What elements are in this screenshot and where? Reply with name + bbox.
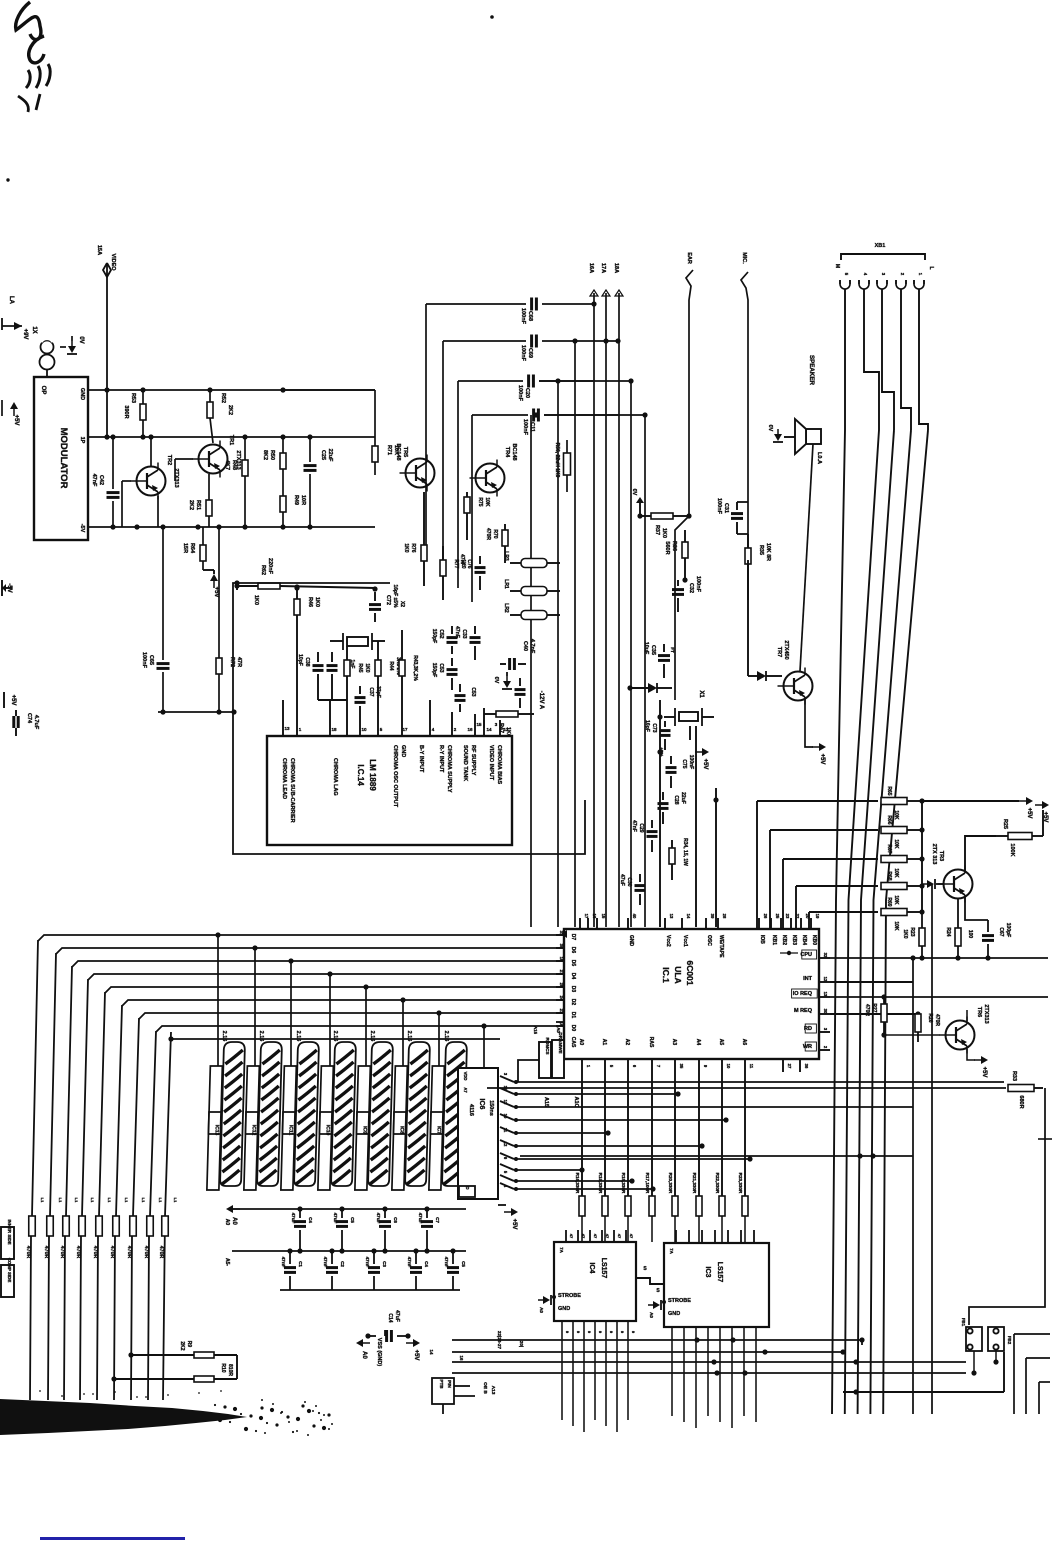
svg-text:VSS (GND): VSS (GND) [376,1338,382,1367]
wire TR1 base link [175,458,193,460]
svg-text:R76: R76 [410,543,416,552]
svg-text:R43,3K,2%: R43,3K,2% [412,655,418,681]
svg-text:L: L [928,266,934,269]
wire MIC line [741,272,748,560]
wire TR6 collector [966,1010,968,1021]
svg-text:+5V: +5V [1042,812,1048,823]
svg-text:12: 12 [503,727,509,732]
svg-text:CHROMA OSC OUTPUT: CHROMA OSC OUTPUT [392,745,398,808]
wire +5V rail right [921,801,923,912]
svg-text:560R: 560R [664,541,670,554]
svg-text:13: 13 [284,726,290,731]
svg-text:IC9: IC9 [361,1126,367,1134]
svg-text:KB2: KB2 [781,935,787,945]
svg-text:L1: L1 [173,1198,178,1203]
svg-text:4.7uF: 4.7uF [33,715,39,730]
svg-text:47nF: 47nF [444,1257,449,1268]
svg-text:C5: C5 [461,1261,466,1267]
svg-text:IC12: IC12 [250,1125,256,1136]
junction dots modulator rails [104,387,109,392]
power +5V right of ROM [504,1208,518,1216]
svg-text:IC4: IC4 [588,1263,595,1274]
svg-text:IC13: IC13 [213,1125,219,1136]
svg-text:28: 28 [722,914,727,919]
svg-text:1K0: 1K0 [314,597,320,607]
LS157 bottom pin wires [561,1321,563,1420]
svg-text:ULA: ULA [673,966,683,983]
svg-text:36: 36 [804,1064,809,1069]
svg-text:IC8: IC8 [398,1126,404,1134]
svg-text:220nF: 220nF [267,558,273,575]
svg-text:4.7nF: 4.7nF [529,639,535,654]
svg-text:OSC: OSC [706,935,712,946]
svg-text:15: 15 [601,914,606,919]
labels side [1,1227,14,1259]
ground 0V TR3 [922,879,935,889]
shield enclosure box [233,583,585,854]
capacitor C37 33pF [355,696,366,699]
capacitor C41 [515,688,526,691]
transistor TR7 2TX450 [784,672,813,701]
svg-text:47uF: 47uF [619,874,625,886]
svg-text:STROBE: STROBE [558,1293,581,1299]
svg-text:M REQ: M REQ [794,1008,813,1014]
svg-text:PTB: PTB [439,1379,444,1389]
capacitor C65 100nF [162,527,164,660]
IC4 74LS157 box [554,1242,636,1321]
capacitor C73 16pF [660,729,671,732]
svg-text:12: 12 [503,1142,508,1147]
svg-text:0V: 0V [493,677,499,684]
svg-text:2.16: 2.16 [295,1031,301,1042]
svg-text:M: M [834,264,840,268]
svg-text:2TX313: 2TX313 [983,1004,989,1023]
wire modulator 1P rail [88,436,245,438]
svg-text:R20,330R: R20,330R [668,1173,673,1194]
capacitor C53 150pF [447,668,458,671]
svg-text:40: 40 [632,914,637,919]
svg-text:A3: A3 [671,1039,677,1046]
svg-text:100nF: 100nF [522,419,528,436]
memory chip IC12 4116 [244,1042,282,1190]
svg-text:10K 8R: 10K 8R [765,543,771,561]
svg-text:A0: A0 [578,1039,584,1046]
svg-text:STROBE: STROBE [668,1298,691,1304]
capacitor C39 1nF [327,664,338,667]
svg-text:470R: 470R [126,1246,132,1259]
svg-text:FB1: FB1 [961,1318,966,1327]
svg-text:13: 13 [669,914,674,919]
svg-text:A5: A5 [718,1039,724,1046]
svg-text:1P: 1P [79,437,85,444]
svg-text:VDD: VDD [463,1072,468,1081]
svg-text:OE B: OE B [482,1382,488,1394]
wire TR6 emitter +5V [967,1049,975,1060]
wire 1P extension [245,436,310,438]
wire C11 line right [544,414,645,416]
resistor R26 470R [915,1014,921,1032]
svg-text:D6: D6 [570,947,576,954]
svg-text:C4: C4 [308,1217,313,1223]
svg-text:R67: R67 [886,844,892,853]
resistors 470R termination ladder [29,1216,36,1236]
transistor TR4 BC148 [476,464,505,493]
resistor R27 470R [881,1004,887,1022]
resistor R46 1K0 [296,588,298,599]
svg-text:30: 30 [823,1009,828,1014]
arrow 18A [618,293,620,341]
svg-text:A1C: A1C [573,1096,579,1107]
resistor R34 15 1W [669,848,675,864]
svg-text:A13: A13 [490,1386,496,1395]
svg-text:470R: 470R [143,1246,149,1259]
svg-text:47: 47 [569,1234,574,1239]
handwritten annotation 'MC' [16,2,41,40]
svg-text:10K: 10K [893,810,899,820]
svg-text:47nF: 47nF [631,820,637,832]
wire IOREQ line [830,996,1048,998]
capacitor C20 100nF [458,380,523,382]
capacitor C11 100nF [472,414,528,416]
svg-text:10: 10 [503,1114,508,1119]
wire MREQ line [830,1013,918,1015]
svg-text:C33: C33 [461,629,467,638]
IC3 74LS157 box [664,1243,769,1327]
wire S between IC4 IC3 [636,1278,664,1284]
data bus ladder verticals [30,940,38,1400]
svg-text:D0: D0 [570,1025,576,1032]
svg-text:+5V: +5V [819,754,825,765]
wire INT line [830,981,913,983]
capacitor C31 100nF [731,512,743,515]
svg-text:R51: R51 [195,500,201,510]
svg-text:C75: C75 [681,759,687,768]
wire A15 line [487,1087,1006,1089]
resistor R71 10K [374,437,376,446]
svg-text:A15: A15 [543,1097,549,1107]
svg-text:100nF: 100nF [520,308,526,325]
svg-text:R64: R64 [189,543,195,554]
svg-text:LR2: LR2 [503,603,509,613]
svg-text:27: 27 [787,1064,792,1069]
svg-text:IC6: IC6 [478,1099,485,1110]
svg-text:C29: C29 [638,823,644,832]
resistor R9 2K2 [128,1352,133,1357]
op-amp IC14 LM1889 box [267,736,512,845]
transistor TR5 BC148 [406,459,435,488]
svg-text:13: 13 [503,1100,508,1105]
inductor LR1 [521,587,547,596]
svg-text:+5V: +5V [981,1067,987,1078]
wire MIC to diode [747,560,749,676]
transistor TR1 2TX313 [199,445,228,474]
svg-text:D2: D2 [570,999,576,1006]
svg-text:R9: R9 [186,1341,192,1348]
resistor R24 1K0 [955,928,961,946]
svg-text:KB0: KB0 [811,935,817,945]
svg-text:R18,330R: R18,330R [621,1173,626,1194]
capacitor C72 16pF [369,603,381,606]
IC4 strobe ground [538,1295,551,1305]
svg-text:CHROMA SUPPLY: CHROMA SUPPLY [446,745,452,793]
svg-text:R75: R75 [477,497,483,506]
svg-text:1K0: 1K0 [253,595,259,605]
svg-text:680R: 680R [1018,1095,1024,1108]
resistor R62 220nF 1K0 [234,583,239,588]
svg-text:47: 47 [593,1234,598,1239]
svg-text:LR3: LR3 [503,551,509,561]
data bus drops to RAM [217,935,219,1068]
wire C20 line right [539,380,631,382]
wire speaker to TR7 [800,444,813,671]
wire bottom horiz 1 [452,1339,862,1341]
svg-text:C7: C7 [435,1217,440,1223]
wire staircase drop 2 [457,381,459,588]
memory chip IC7 4116 [429,1042,467,1190]
svg-text:47nF: 47nF [323,1257,328,1268]
svg-text:C52: C52 [438,629,444,638]
svg-text:R-Y INPUT: R-Y INPUT [438,745,444,773]
svg-text:32: 32 [823,953,828,958]
modulator MOD1 box [34,377,88,540]
svg-text:IC3: IC3 [704,1267,711,1278]
svg-text:C73: C73 [651,723,657,732]
svg-text:470R: 470R [43,1246,49,1259]
svg-text:-5V: -5V [79,524,85,533]
svg-text:16A: 16A [588,263,594,273]
decoupling caps row 2 [289,1251,291,1264]
svg-text:100pF: 100pF [1005,923,1011,937]
svg-text:TR3: TR3 [938,851,944,861]
svg-text:39: 39 [710,914,715,919]
svg-text:D5: D5 [570,960,576,967]
capacitor C38 10pF [313,664,324,667]
svg-text:16: 16 [459,1356,464,1361]
svg-text:C69: C69 [527,348,533,358]
arrow 17A [605,293,607,341]
svg-text:R77: R77 [453,559,459,568]
wire bottom join to box [158,711,234,713]
ULA right control pins [819,957,830,959]
transistor TR3 2TX313 [944,870,973,899]
diode D2 at TR7 [748,675,757,677]
svg-text:A0: A0 [231,1217,237,1225]
svg-text:TR7: TR7 [776,647,782,657]
svg-text:10uF: 10uF [643,642,649,655]
svg-text:25: 25 [775,914,780,919]
resistor R72 47R [218,527,220,658]
wire long mid [520,1155,913,1157]
crystal X1 [679,712,698,721]
resistor R76 1K0 [421,545,427,561]
wire modulator -5V rail [88,526,375,528]
wire ptb [454,1385,470,1387]
resistor R43 3K3 2% [399,660,405,676]
svg-text:KB3: KB3 [791,935,797,945]
svg-text:R72: R72 [229,657,235,667]
svg-text:19: 19 [815,914,820,919]
svg-text:10R: 10R [300,495,306,505]
wire CPU clock line [830,957,1048,959]
svg-text:L1: L1 [74,1198,79,1203]
svg-text:0V: 0V [631,489,637,496]
ground 0V chroma [502,676,512,689]
svg-text:L1: L1 [40,1198,45,1203]
svg-text:2.16: 2.16 [369,1031,375,1042]
svg-text:L1: L1 [58,1198,63,1203]
resistor R49 10R [280,496,286,512]
svg-text:470R: 470R [934,1014,940,1026]
svg-text:GND: GND [668,1311,680,1317]
svg-text:D4: D4 [570,973,576,980]
svg-text:A0: A0 [224,1219,230,1226]
svg-text:+5V: +5V [10,695,16,706]
svg-text:R25: R25 [1002,819,1008,829]
svg-text:INNER SIDE: INNER SIDE [7,1219,12,1244]
svg-text:470R: 470R [109,1246,115,1259]
svg-text:C65: C65 [148,655,154,665]
svg-text:RAS: RAS [648,1037,654,1048]
power +5V below R64 [210,574,218,588]
svg-text:TR4: TR4 [504,447,510,458]
svg-text:CHROMA SUB-CARRIER: CHROMA SUB-CARRIER [289,758,295,823]
svg-text:R56, 22uH 1K0: R56, 22uH 1K0 [554,443,560,478]
svg-text:2.16: 2.16 [221,1031,227,1042]
wire TR2 emitter [157,496,159,527]
svg-text:C35: C35 [650,645,656,655]
svg-text:470R: 470R [485,528,491,540]
svg-text:10K: 10K [893,921,899,931]
svg-text:7A: 7A [669,1248,674,1254]
svg-text:CHROMA LAG: CHROMA LAG [332,758,338,796]
svg-text:22|26-27: 22|26-27 [497,1331,502,1350]
memory chip IC8 4116 [392,1042,430,1190]
svg-text:470R: 470R [25,1246,31,1259]
svg-text:470R: 470R [59,1246,65,1259]
svg-text:IC11: IC11 [287,1125,293,1136]
svg-text:IO REQ: IO REQ [793,991,813,997]
ULA left data pins D7-D0 [556,934,564,936]
svg-text:C67: C67 [998,927,1004,936]
wire video 15A [106,263,108,437]
svg-text:R35: R35 [758,545,764,555]
svg-text:47uF: 47uF [376,1213,381,1224]
resistor R44 3K3 2% [375,660,381,676]
blue mark bottom [40,1537,185,1540]
wires osc cluster [659,700,661,927]
svg-text:100nF: 100nF [688,755,694,769]
svg-text:150pF: 150pF [431,663,437,677]
svg-text:FB2: FB2 [1007,1336,1012,1345]
svg-text:COMP SIDE: COMP SIDE [7,1258,12,1283]
svg-text:C76: C76 [466,559,472,568]
svg-text:20|: 20| [519,1341,524,1347]
data bus D0-D7 horizontals [38,935,564,941]
svg-text:LS157: LS157 [600,1258,607,1279]
svg-text:47: 47 [629,1234,634,1239]
wire TR6 base [884,1034,940,1036]
wire nested corner 3 [1038,1382,1040,1414]
ground 0V speaker [773,429,783,442]
svg-text:L0.A: L0.A [816,452,822,464]
resistor R33 680R [1008,1085,1034,1092]
resistor R64 15R [202,527,204,545]
IC3 strobe ground [648,1300,661,1310]
resistor R70 470R [502,530,508,546]
rail 0V under RAM [232,1208,466,1210]
svg-text:R37: R37 [654,525,660,535]
svg-text:A2: A2 [624,1039,630,1046]
svg-text:100nF: 100nF [520,345,526,362]
svg-text:2K2: 2K2 [179,1341,185,1350]
svg-text:470R: 470R [75,1246,81,1259]
svg-text:47R: 47R [236,657,242,667]
svg-text:R69: R69 [886,897,892,906]
decoupling caps row 1 [299,1209,301,1218]
svg-text:47nF: 47nF [281,1257,286,1268]
scan smudge artifact [0,1399,247,1435]
resistor R75 10K [464,497,470,513]
svg-text:R16,330R: R16,330R [575,1173,580,1194]
svg-text:FT: FT [670,647,675,653]
svg-text:IC10: IC10 [324,1125,330,1136]
svg-text:MODULATOR: MODULATOR [58,428,69,489]
svg-text:47uF: 47uF [333,1213,338,1224]
svg-text:D: D [465,1186,470,1189]
svg-text:L1: L1 [124,1198,129,1203]
svg-text:C11: C11 [529,422,535,432]
wire chroma verticals to IC pins [282,700,284,736]
memory chip IC11 4116 [281,1042,319,1190]
svg-text:L1: L1 [107,1198,112,1203]
resistor R53 390R [142,390,144,404]
svg-text:INT: INT [803,976,813,982]
svg-text:2TX450: 2TX450 [783,640,789,659]
svg-text:14: 14 [429,1350,434,1355]
svg-text:R26: R26 [927,1013,933,1022]
svg-text:1K0: 1K0 [661,528,667,538]
inductor LR3 [521,559,547,568]
svg-text:1K0: 1K0 [902,929,908,938]
svg-text:VIDEO INPUT: VIDEO INPUT [488,745,494,781]
svg-text:R52: R52 [220,393,226,403]
bus line 9 ROMCS [163,1032,171,1400]
svg-text:2.16: 2.16 [332,1031,338,1042]
svg-text:470R: 470R [158,1246,164,1259]
svg-text:+5V: +5V [702,759,708,770]
svg-text:X2: X2 [399,601,405,607]
svg-text:R23,330R: R23,330R [738,1173,743,1194]
svg-text:WR: WR [803,1044,812,1050]
svg-text:TR2: TR2 [166,455,172,465]
svg-text:18: 18 [331,727,337,732]
ULA top pins [579,918,581,929]
svg-text:A0: A0 [361,1351,367,1359]
svg-text:C72: C72 [385,595,391,605]
capacitor C42 47nF [112,437,114,489]
svg-text:C40: C40 [522,641,528,651]
svg-text:47nF: 47nF [91,474,97,487]
svg-text:C68: C68 [527,311,533,321]
capacitor C33 47nF [470,636,481,639]
svg-text:35: 35 [679,1064,684,1069]
wire bottom horiz 4 [452,1372,966,1374]
svg-text:A5-: A5- [224,1258,230,1266]
svg-text:10K: 10K [484,497,490,507]
capacitor C76 47nF [475,566,486,569]
svg-text:Vcc1: Vcc1 [682,935,688,947]
wire TR2 base [122,480,131,482]
